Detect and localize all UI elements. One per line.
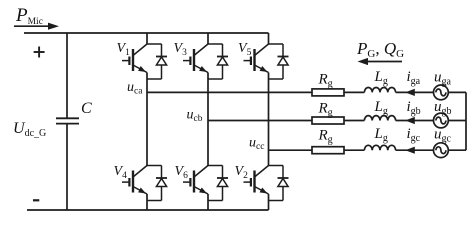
svg-text:ucb: ucb xyxy=(187,108,203,125)
phase a output wire xyxy=(147,91,312,93)
capacitor C xyxy=(56,118,79,123)
diode of V5 xyxy=(269,44,289,79)
diode of V4 xyxy=(147,166,167,201)
svg-text:Lg: Lg xyxy=(374,69,388,87)
wire xyxy=(344,149,364,151)
svg-text:iga: iga xyxy=(407,69,421,87)
wire with current arrow i_gc xyxy=(396,147,434,154)
AC source u_ga xyxy=(434,85,449,100)
resistor Rg phase c xyxy=(312,147,344,154)
P_G Q_G power flow arrow xyxy=(358,58,403,65)
svg-text:V5: V5 xyxy=(238,41,252,58)
wire to right bus xyxy=(448,120,466,122)
svg-text:Lg: Lg xyxy=(374,99,388,117)
svg-text:PMic: PMic xyxy=(15,5,43,27)
diode of V3 xyxy=(208,44,228,79)
svg-text:ugc: ugc xyxy=(434,127,452,145)
wire xyxy=(344,91,364,93)
wire xyxy=(344,120,364,122)
IGBT V4 xyxy=(122,166,147,195)
inductor Lg phase b xyxy=(364,116,395,121)
svg-text:igb: igb xyxy=(407,99,421,117)
diode of V6 xyxy=(208,166,228,201)
svg-text:ugb: ugb xyxy=(434,99,452,117)
svg-text:Lg: Lg xyxy=(374,126,388,144)
svg-text:igc: igc xyxy=(407,126,421,144)
wire with current arrow i_gb xyxy=(396,117,434,124)
svg-text:uca: uca xyxy=(127,80,143,97)
label minus xyxy=(33,199,39,201)
resistor Rg phase b xyxy=(312,117,344,124)
svg-text:PG, QG: PG, QG xyxy=(356,39,404,60)
label plus xyxy=(34,47,45,58)
svg-text:V2: V2 xyxy=(235,164,249,181)
inductor Lg phase c xyxy=(364,145,395,150)
AC source u_gb xyxy=(434,113,449,128)
leg C wire segments (phase c) xyxy=(268,33,270,210)
wire to right bus xyxy=(448,91,466,93)
svg-text:V3: V3 xyxy=(174,41,188,58)
AC source u_gc xyxy=(434,143,449,158)
IGBT V6 xyxy=(183,166,208,195)
svg-text:uga: uga xyxy=(434,70,452,88)
resistor Rg phase a xyxy=(312,89,344,96)
IGBT V2 xyxy=(244,166,269,195)
IGBT V5 xyxy=(244,44,269,73)
svg-text:Udc_G: Udc_G xyxy=(13,120,46,139)
phase c output wire xyxy=(269,149,313,151)
svg-text:V1: V1 xyxy=(117,41,131,58)
bottom DC rail wire xyxy=(27,209,269,211)
inductor Lg phase a xyxy=(364,87,395,92)
DC-link branch wire lower xyxy=(66,124,68,210)
right grid bus wire xyxy=(465,92,467,150)
svg-text:Rg: Rg xyxy=(318,128,333,146)
phase b output wire xyxy=(208,120,312,122)
svg-text:Rg: Rg xyxy=(318,101,333,119)
svg-text:V6: V6 xyxy=(175,164,189,181)
svg-text:Rg: Rg xyxy=(318,72,333,90)
wire with current arrow i_ga xyxy=(396,89,434,96)
P_Mic power flow arrow xyxy=(14,23,59,30)
DC-link branch wire upper xyxy=(66,33,68,118)
leg A wire segments (phase a) xyxy=(146,33,148,210)
top DC rail wire xyxy=(24,32,269,34)
leg B wire segments (phase b) xyxy=(207,33,209,210)
IGBT V3 xyxy=(183,44,208,73)
diode of V2 xyxy=(269,166,289,201)
diode of V1 xyxy=(147,44,167,79)
svg-text:ucc: ucc xyxy=(249,136,264,153)
svg-text:C: C xyxy=(81,100,92,117)
wire to right bus xyxy=(448,149,466,151)
IGBT V1 xyxy=(122,44,147,73)
svg-text:V4: V4 xyxy=(114,164,128,181)
